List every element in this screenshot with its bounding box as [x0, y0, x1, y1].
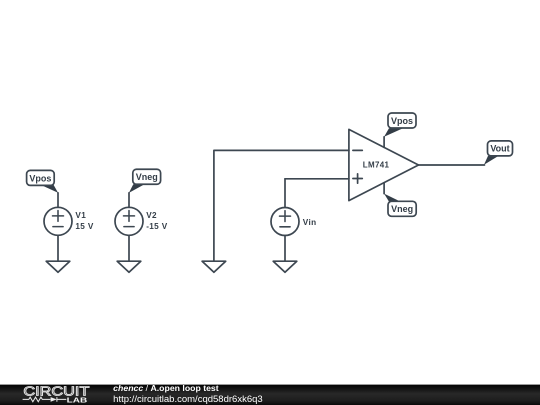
ground (below V1): [46, 261, 70, 272]
CircuitLab logo: [23, 384, 89, 405]
value label -15 V: [146, 222, 168, 231]
logo resistor+diode glyph: [23, 397, 67, 402]
Vin source circle: [271, 208, 299, 236]
wire (inverting input net: ground up and right to op-amp IN-): [214, 150, 349, 261]
ground (inverting input): [202, 261, 226, 272]
svg-text:V2: V2: [146, 211, 157, 220]
svg-text:LM741: LM741: [363, 160, 390, 170]
svg-text:Vpos: Vpos: [391, 116, 413, 126]
svg-text:V1: V1: [75, 211, 86, 220]
svg-text:chencc / A.open loop test: chencc / A.open loop test: [113, 383, 219, 393]
wire (V1 bottom pin to ground): [57, 235, 59, 261]
net flag Vpos (at V1): [27, 170, 58, 192]
svg-text:Vneg: Vneg: [391, 204, 413, 214]
net flag Vneg (at V2): [129, 169, 161, 193]
inverting input marker (-): [353, 149, 362, 151]
pin V+ stub: [383, 137, 385, 148]
wire (Vin top pin riser): [284, 179, 286, 208]
svg-text:LAB: LAB: [67, 395, 88, 404]
svg-text:Vpos: Vpos: [29, 173, 51, 183]
svg-text:15 V: 15 V: [75, 222, 93, 231]
wire (non-inverting input net: Vin to op-amp IN+): [285, 178, 349, 180]
op-amp triangle body: [349, 129, 419, 200]
V2 source circle: [115, 207, 143, 235]
wire (V1 top pin to Vpos flag): [57, 193, 59, 208]
net flag Vneg (at op-amp V-): [384, 194, 416, 217]
wire (output net: op-amp OUT to Vout flag): [419, 164, 485, 166]
value label 15 V: [75, 222, 93, 231]
label V2: [146, 211, 157, 220]
net flag Vpos (at op-amp V+): [384, 113, 416, 137]
label V1: [75, 211, 86, 220]
voltage source V2: [115, 193, 143, 261]
svg-text:-15 V: -15 V: [146, 222, 168, 231]
ground (below V2): [117, 261, 141, 272]
label Vin: [303, 218, 317, 227]
voltage source Vin: [271, 179, 299, 261]
svg-text:Vin: Vin: [303, 218, 317, 227]
ground (below Vin): [273, 261, 297, 272]
Vin polarity marks: [280, 211, 291, 227]
svg-text:http://circuitlab.com/cqd58dr6: http://circuitlab.com/cqd58dr6xk6q3: [113, 394, 263, 404]
footer bar: [0, 383, 540, 405]
voltage source V1: [44, 193, 72, 261]
V1 source circle: [44, 207, 72, 235]
wire (V2 bottom pin to ground): [128, 235, 130, 261]
wire (Vin bottom pin to ground): [284, 236, 286, 262]
op-amp LM741: [349, 129, 419, 200]
pin V- stub: [383, 183, 385, 194]
V1 polarity marks: [53, 211, 64, 227]
V2 polarity marks: [124, 211, 135, 227]
net flag Vout: [484, 141, 513, 165]
label LM741: [363, 160, 390, 170]
svg-text:Vneg: Vneg: [136, 172, 158, 182]
wire (V2 top pin to Vneg flag): [128, 193, 130, 208]
non-inverting input marker (+): [353, 174, 362, 183]
svg-text:Vout: Vout: [490, 144, 509, 154]
